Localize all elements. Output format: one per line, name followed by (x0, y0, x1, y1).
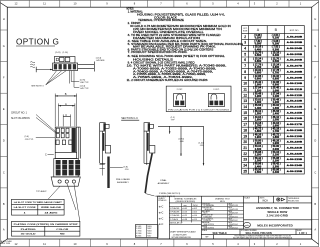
svg-text:TYP-BHUP: TYP-BHUP (36, 191, 47, 193)
svg-text:G: G (314, 44, 316, 48)
svg-text:A-56-217B: A-56-217B (287, 123, 303, 126)
svg-text:C: C (3, 170, 5, 174)
svg-text:C: C (45, 154, 47, 157)
svg-text:A-56-219B: A-56-219B (287, 135, 303, 138)
table circuit sizes outline (242, 26, 305, 174)
svg-text:RED: RED (60, 234, 65, 236)
housing latch details (56, 128, 69, 132)
svg-text:A-56-203B: A-56-203B (287, 41, 303, 44)
svg-text:A-56-216B: A-56-216B (287, 117, 303, 120)
svg-text:30 GOLD: 30 GOLD (21, 234, 37, 236)
svg-text:UNITS: UNITS (259, 197, 265, 199)
svg-text:D: D (314, 139, 316, 143)
apron wire holes (58, 180, 76, 183)
svg-text:8. SEE DRAWING SDA-70400-9999: 8. SEE DRAWING SDA-70400-9999 (SHEET 3) … (128, 55, 226, 58)
dim C line (63, 116, 70, 118)
svg-text:EXP. NO.: EXP. NO. (290, 30, 300, 32)
corner diagonal top-right (312, 2, 319, 7)
svg-text:24: 24 (243, 164, 247, 168)
svg-text:A-56-225B: A-56-225B (287, 170, 303, 173)
svg-text:A: A (65, 102, 67, 106)
svg-text:PROJECTION: PROJECTION (288, 200, 300, 202)
svg-text:10: 10 (243, 82, 247, 86)
svg-text:B: B (3, 202, 5, 206)
leaders to SEE NOTE 3 (46, 71, 57, 85)
svg-text:11: 11 (243, 87, 247, 91)
svg-text:D: D (3, 139, 5, 143)
svg-text:THIRD ANGLE: THIRD ANGLE (288, 197, 300, 200)
svg-text:DRAWING TITLE: DRAWING TITLE (215, 197, 230, 200)
svg-text:SEE NOTES: SEE NOTES (204, 224, 215, 226)
svg-text:.030 TYP.: .030 TYP. (80, 82, 89, 84)
svg-text:25: 25 (243, 169, 247, 173)
final assembly view (144, 123, 155, 165)
dim line left of top view (36, 69, 52, 71)
housing windows row (56, 140, 72, 145)
svg-text:MLG: MLG (204, 213, 208, 215)
svg-text:SLOT ON APRON: SLOT ON APRON (11, 117, 30, 120)
leaders from callout (36, 115, 57, 133)
svg-text:WIRE GAUGE: WIRE GAUGE (41, 206, 62, 209)
svg-text:LA SLOT CODE TO WIRE GAUGE CHA: LA SLOT CODE TO WIRE GAUGE CHART (14, 201, 63, 204)
corner diagonal bottom-right (312, 239, 319, 244)
dim B line (55, 95, 76, 97)
svg-text:13: 13 (243, 99, 247, 103)
svg-text:SYMBOLS: SYMBOLS (158, 200, 167, 202)
svg-text:DRAFT WHERE APPLICABLE: DRAFT WHERE APPLICABLE (170, 231, 197, 234)
svg-text:PLATING: PLATING (21, 228, 36, 231)
svg-text:3 CKT.: 3 CKT. (213, 89, 220, 91)
svg-text:(1.14): (1.14) (63, 52, 69, 54)
svg-text:A-56-215B: A-56-215B (287, 111, 303, 114)
dim label (0.25) .010 (110, 167, 123, 169)
svg-text:1 WIRE (SEE NOTE 3): 1 WIRE (SEE NOTE 3) (159, 193, 181, 195)
svg-text:.045 MIN.: .045 MIN. (96, 60, 105, 62)
drawing title lines (256, 206, 300, 217)
svg-text:A-56-218B: A-56-218B (287, 129, 303, 132)
3ckt housing icon (208, 93, 224, 106)
crimp terminals (56, 160, 80, 175)
svg-text:OPTION G: OPTION G (16, 38, 59, 47)
svg-text:⊕-C: ⊕-C (159, 217, 164, 220)
svg-text:molex: molex (244, 225, 249, 227)
pre-loaded terminal strip (103, 133, 105, 151)
svg-text:⊕-C: ⊕-C (159, 223, 164, 226)
apron trapezoid (51, 177, 80, 186)
svg-text:±0.05: ±0.05 (182, 208, 187, 210)
zone letters right (314, 17, 316, 232)
title block outline (158, 196, 312, 239)
svg-text:SECTION C-C: SECTION C-C (121, 116, 138, 120)
label WIRE (SEE NOTE 3) (145, 194, 154, 197)
svg-text:A-56-204B: A-56-204B (287, 47, 303, 50)
svg-text:TYP: TYP (171, 119, 176, 121)
svg-text:C: C (65, 113, 67, 117)
svg-text:E: E (3, 107, 5, 111)
pre-loaded cap inner bar (103, 123, 105, 131)
svg-text:19: 19 (243, 134, 247, 138)
svg-text:23: 23 (243, 158, 247, 162)
svg-text:LA SLOT CODE: LA SLOT CODE (14, 206, 37, 209)
svg-text:2 PLACES: 2 PLACES (170, 214, 180, 217)
svg-text:ANGULAR ±3°: ANGULAR ±3° (170, 221, 183, 224)
final wire diagonal (145, 153, 152, 193)
pre-loaded wire (107, 157, 109, 189)
svg-text:.045 TYP.: .045 TYP. (80, 88, 89, 90)
mid divider (55, 151, 76, 153)
svg-text:A-56-210B: A-56-210B (287, 82, 303, 85)
svg-text:COLOR: COLOR (56, 229, 69, 231)
svg-text:⊕-C: ⊕-C (159, 212, 164, 215)
svg-text:12: 12 (243, 93, 247, 97)
terminal squares (hatched) (54, 64, 76, 69)
centerline below top view (68, 71, 70, 84)
pre-loaded assembly view (100, 123, 111, 165)
names/dates column (243, 196, 245, 229)
zone letters left (3, 17, 5, 232)
svg-text:2: 2 (244, 35, 246, 39)
svg-text:22: 22 (243, 152, 247, 156)
svg-text:SEE TABLE: SEE TABLE (213, 231, 228, 235)
svg-text:±.002: ±.002 (192, 208, 197, 210)
svg-text:1994/10/19: 1994/10/19 (229, 213, 238, 215)
svg-text:±0.13: ±0.13 (182, 212, 187, 214)
svg-text:7. PRODUCT SPECIFICATION PS-70: 7. PRODUCT SPECIFICATION PS-70400. (128, 51, 188, 54)
connector top view (option G) (53, 57, 78, 71)
svg-text:H: H (3, 17, 5, 21)
svg-text:TERMINAL: PHOSPHOR BRONZE: TERMINAL: PHOSPHOR BRONZE (138, 19, 184, 22)
svg-text:WITHIN DIMENSIONS: WITHIN DIMENSIONS (172, 237, 192, 239)
final terminal strip (147, 133, 149, 151)
svg-text:20: 20 (243, 140, 247, 144)
svg-text:A-56-224B: A-56-224B (287, 164, 303, 167)
svg-text:A-56-208B: A-56-208B (287, 70, 303, 73)
svg-text:1994/10/18: 1994/10/18 (229, 205, 238, 207)
zone ticks left (0, 30, 7, 219)
scale/inch/projection row (244, 202, 312, 204)
corner diagonal bottom-left (0, 239, 7, 244)
svg-text:A: A (3, 228, 5, 232)
svg-text:ASSEMBLY: ASSEMBLY (158, 182, 170, 185)
svg-text:±.010: ±.010 (192, 215, 197, 217)
svg-text:E: E (314, 107, 316, 111)
zone ticks top (29, 0, 289, 7)
table row lines (242, 39, 305, 168)
wire exit dim chain (158, 126, 204, 165)
notes text block (127, 8, 244, 83)
svg-text:H: H (314, 17, 316, 21)
svg-text:17: 17 (243, 123, 247, 127)
svg-text:14: 14 (243, 105, 247, 109)
svg-text:A-56-206B: A-56-206B (287, 59, 303, 62)
svg-text:GENERAL TOLERANCES: GENERAL TOLERANCES (174, 197, 197, 200)
front view housing body (55, 127, 76, 158)
svg-text:C 9310: C 9310 (136, 231, 141, 233)
svg-text:±.005: ±.005 (192, 212, 197, 214)
table header row (242, 33, 305, 35)
svg-text:8: 8 (244, 70, 246, 74)
svg-text:A-56-214B: A-56-214B (287, 106, 303, 109)
zone ticks right (312, 30, 319, 219)
svg-text:FINAL: FINAL (160, 179, 167, 182)
svg-text:1994/11/04: 1994/11/04 (229, 224, 238, 226)
svg-text:4: 4 (244, 47, 246, 51)
svg-text:SEE NOTE 3: SEE NOTE 3 (31, 85, 44, 87)
svg-text:1 PLACE: 1 PLACE (170, 218, 179, 221)
quality symbols column (168, 196, 170, 239)
svg-text:A-56-207B: A-56-207B (287, 65, 303, 68)
svg-text:PRE-LOADED: PRE-LOADED (116, 178, 131, 181)
svg-text:MK-S: MK-S (148, 233, 152, 235)
table column lines (249, 26, 285, 174)
svg-text:G: G (3, 44, 5, 48)
svg-text:±0.25: ±0.25 (182, 215, 187, 217)
dark terminal strip right (72, 128, 76, 153)
svg-text:MK-N: MK-N (220, 201, 225, 203)
molex logo (244, 222, 251, 227)
proprietary notice row (201, 234, 311, 236)
svg-text:±0.38: ±0.38 (182, 219, 187, 221)
left tick marks (100, 164, 105, 166)
svg-text:D 9312: D 9312 (136, 228, 141, 230)
svg-text:A-56-211B: A-56-211B (287, 88, 303, 91)
terminal block outline (54, 159, 78, 177)
svg-text:B 9306: B 9306 (136, 233, 141, 235)
svg-text:E 9401: E 9401 (136, 226, 141, 228)
tolerance column (200, 196, 202, 239)
svg-text:24 AWG: 24 AWG (45, 211, 58, 214)
svg-text:5: 5 (244, 52, 246, 56)
svg-text:R.SMITH: R.SMITH (204, 220, 212, 222)
svg-text:CIRCUIT NO. 1: CIRCUIT NO. 1 (11, 113, 28, 115)
pin location box (166, 86, 231, 111)
svg-text:(3.8): (3.8) (123, 166, 128, 168)
svg-text:(2.41): (2.41) (55, 52, 61, 54)
final cap inner bar (148, 123, 150, 131)
molex row (244, 219, 312, 221)
zone numbers bottom (15, 242, 302, 246)
leaders from apron to charts (48, 186, 60, 199)
svg-text:16: 16 (243, 117, 247, 121)
svg-text:21: 21 (243, 146, 247, 150)
svg-text:A-56-222B: A-56-222B (287, 152, 303, 155)
svg-text:B: B (65, 92, 67, 96)
zone numbers top (15, 2, 302, 6)
svg-text:7: 7 (244, 64, 246, 68)
svg-text:.25 MAX FLASH: .25 MAX FLASH (173, 233, 188, 236)
svg-text:HOUSING: POLYESTER(PBT), GLASS: HOUSING: POLYESTER(PBT), GLASS FILLED, U… (137, 14, 225, 17)
svg-text:2.500: 2.500 (255, 170, 262, 174)
svg-text:1994/11/02: 1994/11/02 (229, 220, 238, 222)
svg-text:INCH: INCH (262, 201, 268, 203)
svg-text:SIZE: SIZE (243, 31, 248, 33)
svg-text:SDA-70400-YRN-SDN: SDA-70400-YRN-SDN (246, 231, 272, 235)
svg-text:2.54/.100 GRID: 2.54/.100 GRID (267, 214, 289, 218)
svg-text:B: B (314, 202, 316, 206)
svg-text:1 OF 1: 1 OF 1 (299, 231, 307, 235)
svg-text:2.400: 2.400 (273, 170, 280, 174)
svg-text:PLATING CODE (STRIPE) ON CARRI: PLATING CODE (STRIPE) ON CARRIER STRIP (14, 223, 79, 226)
2ckt housing icon (174, 93, 186, 106)
svg-text:⊕-C: ⊕-C (159, 206, 164, 209)
svg-text:3 PLACES: 3 PLACES (170, 211, 180, 214)
leader pair to TYP labels (70, 71, 72, 82)
plating code chart (12, 221, 80, 236)
svg-text:18: 18 (243, 128, 247, 132)
revision stamp box (136, 225, 159, 238)
svg-text:2 CKT.: 2 CKT. (177, 89, 184, 91)
svg-text:A: A (314, 228, 316, 232)
svg-text:PIN LOCATION FOR 2 & 3 CIRCUIT: PIN LOCATION FOR 2 & 3 CIRCUIT HOUSING (168, 109, 230, 112)
document number row (201, 228, 311, 230)
svg-text:A-56-205B: A-56-205B (287, 53, 303, 56)
svg-text:REV 1994: REV 1994 (1, 243, 11, 245)
third angle symbol (277, 198, 285, 201)
svg-text:A-56-220B: A-56-220B (287, 141, 303, 144)
dim A line (58, 105, 75, 107)
corner diagonal top-left (0, 3, 7, 7)
svg-text:C: C (314, 170, 316, 174)
svg-text:4 PLACES: 4 PLACES (170, 207, 180, 210)
wire gauge chart (12, 199, 65, 215)
zone ticks bottom (29, 239, 289, 247)
svg-text:.220 TYP.: .220 TYP. (25, 139, 34, 141)
svg-text:MK-T: MK-T (148, 235, 152, 237)
svg-text:A-56-202B: A-56-202B (287, 35, 303, 38)
right thin profile (78, 127, 80, 158)
svg-text:6: 6 (244, 58, 246, 62)
svg-text:11. 2 CIRCUIT ASSEMBLIES SUPPL: 11. 2 CIRCUIT ASSEMBLIES SUPPLIED AS GRO… (127, 79, 208, 82)
svg-text:15: 15 (243, 111, 247, 115)
wire squiggle left (30, 62, 35, 68)
svg-text:SCALE: SCALE (244, 196, 250, 199)
svg-text:A-56-213B: A-56-213B (287, 100, 303, 103)
svg-text:A-56-223B: A-56-223B (287, 158, 303, 161)
table row data (243, 33, 302, 174)
svg-text:ASSEMBLY: ASSEMBLY (117, 181, 129, 184)
svg-text:MOLEX INCORPORATED: MOLEX INCORPORATED (257, 223, 293, 227)
flange extension lines right (78, 64, 95, 66)
svg-text:9: 9 (244, 76, 246, 80)
svg-text:MK-P: MK-P (148, 228, 152, 230)
housing mid rects row (56, 134, 69, 138)
svg-text:3: 3 (244, 41, 246, 45)
svg-text:A-56-209B: A-56-209B (287, 76, 303, 79)
svg-text:A-56-212B: A-56-212B (287, 94, 303, 97)
svg-text:A-56-221B: A-56-221B (287, 146, 303, 149)
svg-text:±.015: ±.015 (192, 219, 197, 221)
